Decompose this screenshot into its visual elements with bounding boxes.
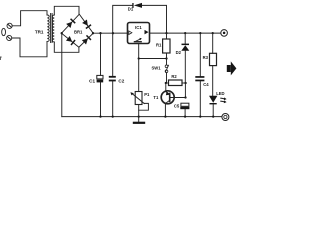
wire secondary top to bridge top xyxy=(54,6,79,15)
svg-text:P1: P1 xyxy=(144,92,150,97)
svg-text:T1: T1 xyxy=(153,95,159,100)
mains plug xyxy=(2,23,13,40)
resistor R2 xyxy=(166,74,186,86)
node R3 xyxy=(212,32,214,34)
resistor R3 xyxy=(203,33,217,96)
svg-text:IC1: IC1 xyxy=(135,25,142,30)
svg-text:C1: C1 xyxy=(89,79,95,84)
resistor R1 xyxy=(156,33,170,58)
node P1 ground xyxy=(138,115,140,117)
node left vertex xyxy=(61,32,63,34)
svg-text:SW1: SW1 xyxy=(152,66,162,71)
bridge rectifier BR1 xyxy=(62,14,94,47)
wire plug top to primary xyxy=(12,11,47,26)
diode D2 xyxy=(176,33,190,83)
output arrow xyxy=(227,61,237,75)
svg-text:C4: C4 xyxy=(203,82,209,87)
node right vertex xyxy=(92,32,94,34)
wire ground rail xyxy=(62,116,222,118)
node C1 tap xyxy=(99,32,101,34)
wire D2 node down xyxy=(184,83,186,98)
svg-text:LED: LED xyxy=(216,91,224,96)
node adj xyxy=(138,57,140,59)
LED xyxy=(209,91,227,116)
svg-text:C5: C5 xyxy=(174,104,180,109)
node C4 ground xyxy=(199,115,201,117)
wire IC1 out xyxy=(150,32,221,34)
svg-text:TR1: TR1 xyxy=(35,29,44,34)
node R1 bottom xyxy=(165,57,167,59)
node T1 collector xyxy=(184,96,186,98)
svg-text:BR1: BR1 xyxy=(74,29,83,34)
node R1/D1 xyxy=(165,32,167,34)
terminal plus xyxy=(221,30,228,37)
node R2 right xyxy=(184,82,186,84)
wire IC1 adj xyxy=(139,44,167,59)
svg-text:D2: D2 xyxy=(176,50,182,55)
node D2 xyxy=(184,32,186,34)
capacitor C1 xyxy=(89,33,103,116)
node C4 xyxy=(199,32,201,34)
wire main bus left xyxy=(93,32,127,34)
node R2 left xyxy=(165,82,167,84)
node C2 ground xyxy=(112,115,114,117)
diode D1 xyxy=(113,3,167,33)
svg-text:C2: C2 xyxy=(118,79,124,84)
svg-text:R2: R2 xyxy=(171,74,177,79)
switch SW1 xyxy=(152,59,169,84)
scan artifact left edge xyxy=(0,57,2,61)
node LED ground xyxy=(212,115,214,117)
potentiometer P1 xyxy=(130,59,150,117)
wire plug bottom to primary xyxy=(12,38,47,57)
ground xyxy=(133,117,145,124)
capacitor C4 xyxy=(195,33,209,117)
node C1 ground xyxy=(99,115,101,117)
wire DC minus down xyxy=(61,33,63,116)
node C2 tap xyxy=(112,32,114,34)
svg-text:D1: D1 xyxy=(128,6,134,11)
capacitor C2 xyxy=(109,33,125,116)
node T1 emitter ground xyxy=(164,115,166,117)
node C5 ground xyxy=(184,115,186,117)
transformer TR1 xyxy=(35,14,54,43)
transistor T1 xyxy=(153,83,185,117)
regulator IC1 xyxy=(128,23,150,44)
svg-text:R1: R1 xyxy=(156,42,162,47)
svg-text:R3: R3 xyxy=(203,55,209,60)
capacitor C5 xyxy=(174,103,190,116)
wire secondary bottom to bridge bottom xyxy=(54,42,79,52)
terminal minus xyxy=(222,114,229,121)
